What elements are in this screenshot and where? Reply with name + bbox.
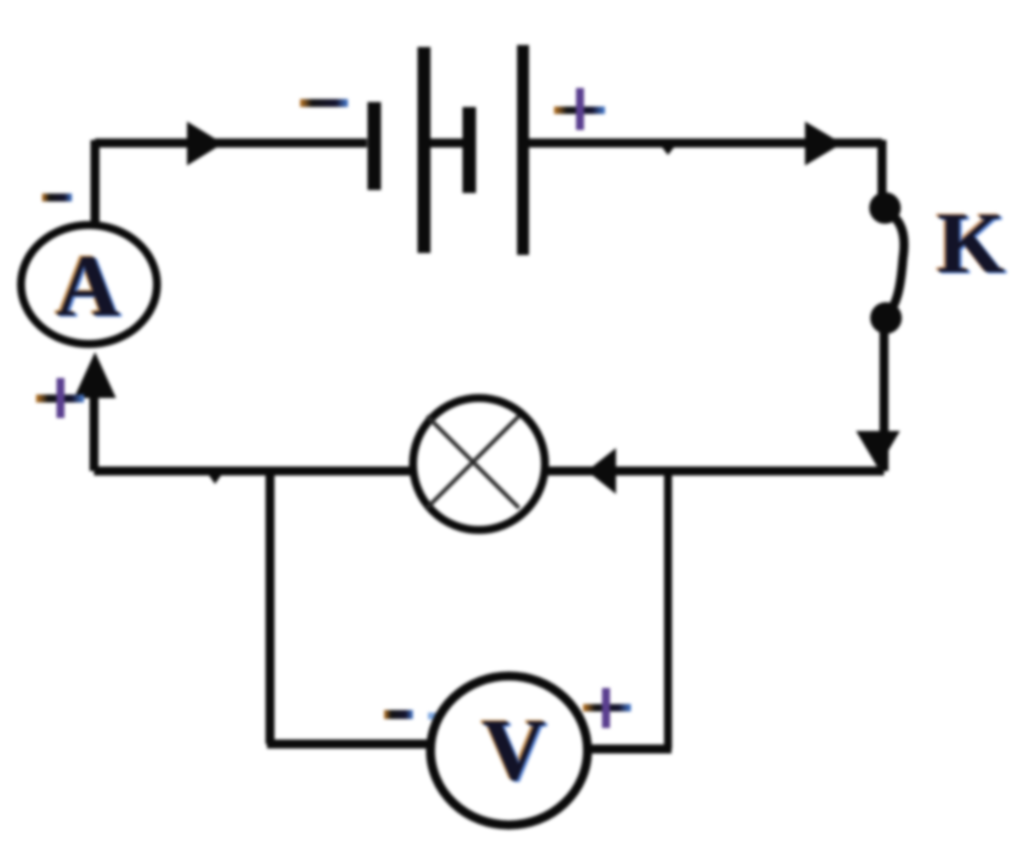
switch K bottom contact dot [870,302,902,334]
arrow current direction left, pointing at lamp [587,448,616,494]
svg-text:A: A [56,238,120,335]
wire: between battery cells [430,139,463,148]
lamp X diagonal 2 [427,416,519,508]
voltmeter letter V [480,701,549,801]
label + (plus) at battery positive end [554,88,605,130]
switch K blade [887,212,904,314]
ammeter letter A [54,237,123,337]
wire: vertical from top-left corner down to ammeter top [91,140,100,223]
svg-text:K: K [937,194,1005,291]
label - (minus) above ammeter [42,194,72,202]
wire: voltmeter branch right vertical [664,471,672,749]
label K [935,193,1008,293]
label - (minus) at battery negative end [300,99,348,107]
label + (plus) below-left of ammeter [36,378,84,418]
junction tick below top wire [661,146,675,155]
ammeter A circle [21,225,157,344]
wire: top-left horizontal from corner to battery plate 1 [95,139,367,148]
arrow current direction right, on top-left wire [187,122,223,166]
wire: voltmeter right horizontal [586,745,672,754]
battery plate long 1 (positive) [418,47,431,253]
battery plate long 2 (positive) [517,45,529,255]
wire: top-right horizontal from battery to right corner [529,139,882,148]
voltmeter V circle [431,676,588,825]
wire: voltmeter branch left vertical [266,471,275,744]
svg-text:V: V [482,702,546,799]
label + (plus) right of voltmeter [583,688,631,728]
wire: right vertical from top corner to switch [878,140,887,196]
lamp X diagonal 1 [427,416,519,508]
label - (minus) left of voltmeter [384,710,440,720]
wire: voltmeter left horizontal [267,740,430,749]
lamp circle [413,398,545,530]
junction tick below bottom wire [208,474,222,484]
switch K top contact dot [869,192,901,224]
battery plate short 1 (negative) [368,102,382,190]
arrow current direction up, below ammeter [74,352,116,398]
arrow current direction down, above bottom-right corner [856,431,900,468]
battery plate short 2 (negative) [463,107,477,193]
wire: bottom horizontal from left corner to lamp [94,467,412,476]
wire: vertical below ammeter down to bottom-left corner [90,390,99,471]
arrow current direction right, on top-right wire [805,122,842,166]
wire: right vertical from switch down to bottom corner [880,332,889,471]
wire: bottom horizontal from right corner to lamp [546,467,884,476]
